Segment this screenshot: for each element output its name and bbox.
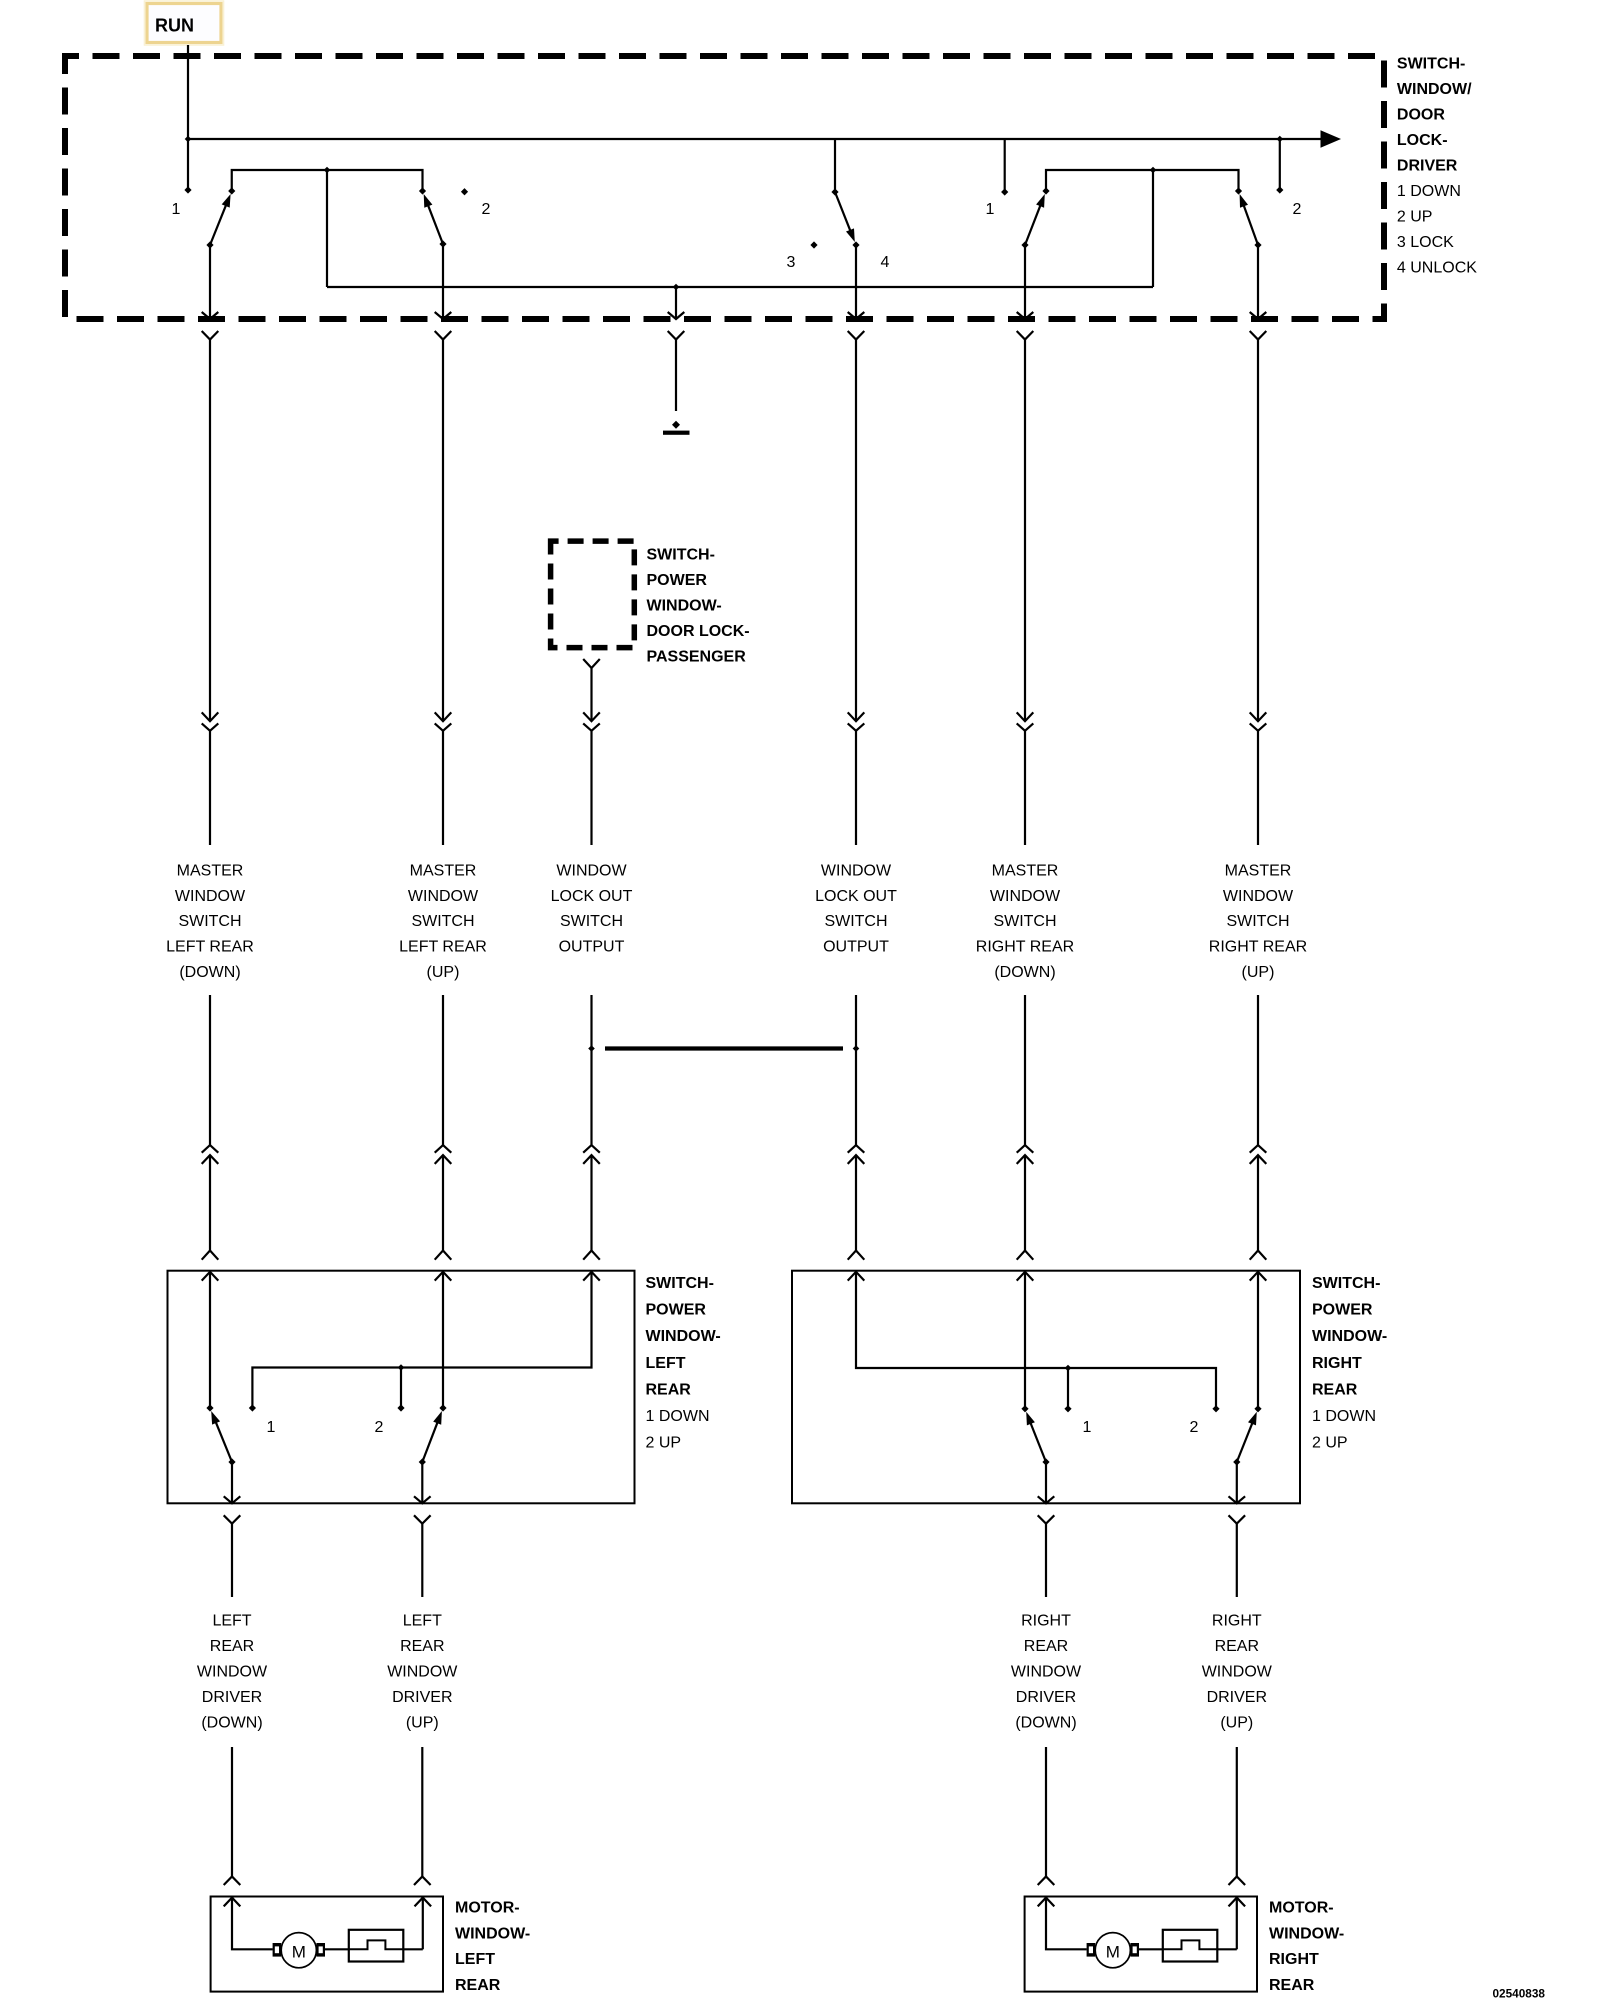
svg-text:2: 2 [1293, 201, 1302, 218]
svg-text:REAR: REAR [646, 1381, 692, 1398]
svg-text:(DOWN): (DOWN) [179, 964, 240, 981]
svg-text:REAR: REAR [1312, 1381, 1358, 1398]
svg-text:WINDOW: WINDOW [1223, 888, 1294, 905]
pin entry arrow motor LEFT REAR down lead [224, 1898, 241, 1907]
switch arm S6 left box down (arrow up) [211, 1411, 235, 1466]
connector socket below block (master right rear down) [1017, 331, 1034, 340]
contact pivot lock switch [831, 188, 838, 195]
svg-text:MASTER: MASTER [1225, 862, 1292, 879]
svg-text:WINDOW-: WINDOW- [647, 598, 722, 615]
svg-text:2 UP: 2 UP [1397, 209, 1433, 226]
svg-text:RIGHT: RIGHT [1212, 1613, 1262, 1630]
wire right pin1 feed from main bus [1004, 139, 1006, 192]
svg-text:DRIVER: DRIVER [1207, 1689, 1267, 1706]
svg-text:WINDOW: WINDOW [387, 1664, 458, 1681]
svg-text:(UP): (UP) [406, 1715, 439, 1732]
wire left box lockout tap drop [400, 1368, 402, 1409]
pin entry arrow motor RIGHT REAR down lead [1038, 1898, 1055, 1907]
motor M1 RIGHT REAR terminal right [1130, 1943, 1139, 1957]
svg-text:SWITCH-: SWITCH- [1312, 1275, 1380, 1292]
node pin 1 right box (DOWN) [1064, 1405, 1091, 1436]
junction main bus / pin2 branch right [1277, 136, 1284, 143]
svg-text:(UP): (UP) [1220, 1715, 1253, 1732]
node pin 1 left box (DOWN) [249, 1404, 276, 1436]
connector socket below block (master left rear up) [435, 331, 452, 340]
svg-text:1 DOWN: 1 DOWN [646, 1408, 710, 1425]
switch arm S5 right-rear-up (arrow up) [1240, 194, 1262, 249]
ground bar G300 [663, 431, 690, 435]
svg-text:POWER: POWER [646, 1302, 707, 1319]
connector socket below passenger switch box [583, 659, 600, 668]
svg-text:LEFT: LEFT [212, 1613, 251, 1630]
wire left box down-feed [209, 1272, 211, 1408]
svg-text:(DOWN): (DOWN) [994, 964, 1055, 981]
wire upper run (master left rear up) [435, 340, 452, 846]
svg-text:DOOR: DOOR [1397, 107, 1445, 124]
svg-text:DRIVER: DRIVER [1397, 158, 1458, 175]
component box SWITCH-POWER WINDOW-RIGHT REAR [792, 1271, 1300, 1504]
motor M1 LEFT REAR terminal right [316, 1943, 325, 1957]
wire bracket joining left switch pivots [232, 170, 423, 191]
svg-text:4: 4 [881, 254, 890, 271]
wire upper run (window lock out right) [848, 340, 865, 846]
svg-text:MASTER: MASTER [410, 862, 477, 879]
net label MASTER WINDOW SWITCH LEFT REAR (DOWN) [166, 862, 254, 981]
svg-text:RIGHT REAR: RIGHT REAR [976, 939, 1074, 956]
wire upper run (master right rear down) [1017, 340, 1034, 846]
node pin 3 LOCK contact (open) [787, 241, 818, 271]
wire driver lead (left rear window down) [224, 1515, 241, 1597]
svg-text:1 DOWN: 1 DOWN [1312, 1408, 1376, 1425]
svg-text:WINDOW-: WINDOW- [1269, 1925, 1344, 1942]
wire window lock out output (right) to block edge [848, 245, 865, 319]
svg-text:SWITCH: SWITCH [993, 913, 1056, 930]
svg-text:WINDOW/: WINDOW/ [1397, 81, 1472, 98]
switch arm S3 lock/unlock (arrow down to pin 4) [835, 192, 855, 242]
svg-text:1: 1 [1083, 1419, 1092, 1436]
label SWITCH-POWER WINDOW-LEFT REAR 1 DOWN 2 UP [646, 1275, 721, 1452]
pin entry arrow left box x=443 [435, 1272, 452, 1281]
svg-text:RIGHT: RIGHT [1269, 1951, 1319, 1968]
node pin 1 left (DOWN contact) with dot [172, 186, 192, 218]
svg-text:(UP): (UP) [427, 964, 460, 981]
svg-text:DRIVER: DRIVER [1016, 1689, 1076, 1706]
svg-text:WINDOW-: WINDOW- [455, 1925, 530, 1942]
wire right box up-feed [1257, 1272, 1259, 1409]
contact pivot right switch arm 1 [1042, 187, 1049, 194]
junction left box lockout tap [398, 1364, 405, 1371]
contact pivot left switch arm 2 [419, 187, 426, 194]
node pin 2 left box (UP) [375, 1404, 405, 1436]
net label MASTER WINDOW SWITCH RIGHT REAR (DOWN) [976, 862, 1074, 981]
svg-text:RIGHT REAR: RIGHT REAR [1209, 939, 1307, 956]
svg-text:SWITCH-: SWITCH- [646, 1275, 714, 1292]
wire bracket tap down to cross bus [326, 170, 328, 287]
svg-text:WINDOW-: WINDOW- [1312, 1328, 1387, 1345]
net label WINDOW LOCK OUT SWITCH OUTPUT [815, 862, 897, 955]
svg-text:REAR: REAR [1215, 1638, 1259, 1655]
wire motor lead (right rear window up) [1229, 1747, 1246, 1885]
connector socket below block (ground lead) [668, 331, 685, 340]
svg-text:REAR: REAR [210, 1638, 254, 1655]
svg-text:DRIVER: DRIVER [202, 1689, 262, 1706]
wire lower run (master left rear down) [202, 995, 219, 1260]
svg-text:2: 2 [1190, 1419, 1199, 1436]
power node RUN (ignition feed) [145, 1, 224, 45]
svg-text:2 UP: 2 UP [646, 1435, 682, 1452]
junction bracket tap right [1150, 167, 1157, 174]
svg-text:WINDOW: WINDOW [408, 888, 479, 905]
component box MOTOR-WINDOW-LEFT REAR [211, 1897, 443, 1992]
svg-text:POWER: POWER [647, 572, 708, 589]
svg-text:LEFT REAR: LEFT REAR [399, 939, 487, 956]
svg-text:RIGHT: RIGHT [1312, 1355, 1362, 1372]
svg-text:M: M [1106, 1942, 1120, 1961]
label SWITCH-WINDOW/DOOR LOCK-DRIVER with pins 1 DOWN 2 UP 3 LOCK 4 UNLOCK [1397, 56, 1477, 277]
svg-text:WINDOW: WINDOW [556, 862, 627, 879]
wire lock out splice bus between columns [605, 1046, 843, 1050]
wire motor RIGHT REAR down lead [1046, 1898, 1087, 1950]
switch arm S1 left-rear-down (arrow up) [206, 194, 230, 249]
pin entry arrow right box x=1258 [1250, 1272, 1267, 1281]
pin entry arrow left box x=591.5 [583, 1272, 600, 1281]
wire master right rear up output to block edge [1250, 245, 1267, 319]
pin entry arrow right box x=1025 [1017, 1272, 1034, 1281]
switch arm S8 right box down (arrow up) [1026, 1412, 1049, 1466]
wire right box output down [1038, 1462, 1055, 1503]
connector socket below block (master left rear down) [202, 331, 219, 340]
component box SWITCH-POWER WINDOW-LEFT REAR [168, 1271, 635, 1504]
contact pivot left switch arm 1 [228, 187, 235, 194]
svg-text:SWITCH: SWITCH [824, 913, 887, 930]
wire bracket joining right switch pivots [1046, 170, 1239, 191]
motor M1 RIGHT REAR body [1095, 1933, 1130, 1968]
svg-text:DRIVER: DRIVER [392, 1689, 452, 1706]
svg-text:SWITCH: SWITCH [178, 913, 241, 930]
svg-text:POWER: POWER [1312, 1302, 1373, 1319]
wire right box lockout tap drop [1067, 1368, 1069, 1409]
net label LEFT REAR WINDOW DRIVER (UP) [387, 1613, 458, 1732]
junction lock out splice left [588, 1045, 595, 1052]
net label MASTER WINDOW SWITCH RIGHT REAR (UP) [1209, 862, 1307, 981]
wire lower run (master left rear up) [435, 995, 452, 1260]
switch arm S2 left-rear-up (arrow up) [424, 194, 447, 248]
svg-text:3: 3 [787, 254, 796, 271]
svg-text:02540838: 02540838 [1493, 1987, 1546, 2000]
component box MOTOR-WINDOW-RIGHT REAR [1025, 1897, 1257, 1992]
svg-text:4 UNLOCK: 4 UNLOCK [1397, 260, 1477, 277]
svg-text:MASTER: MASTER [992, 862, 1059, 879]
switch arm S4 right-rear-down (arrow up) [1021, 194, 1044, 249]
wire window lock out left upper run [583, 668, 600, 845]
pin entry arrow motor RIGHT REAR up lead [1229, 1898, 1246, 1907]
svg-text:(DOWN): (DOWN) [1015, 1715, 1076, 1732]
svg-text:REAR: REAR [1269, 1977, 1315, 1994]
node pin 2 right box (UP) [1190, 1405, 1220, 1436]
wire right box lockout feed bend [856, 1272, 1216, 1409]
switch arm S9 right box up (arrow up) [1233, 1412, 1257, 1466]
circuit breaker CB1 LEFT REAR [349, 1930, 404, 1962]
net label RIGHT REAR WINDOW DRIVER (DOWN) [1011, 1613, 1082, 1732]
wire driver lead (right rear window down) [1038, 1515, 1055, 1597]
svg-text:SWITCH: SWITCH [1226, 913, 1289, 930]
svg-text:(DOWN): (DOWN) [201, 1715, 262, 1732]
node pin 2 right (UP contact) [1276, 139, 1301, 218]
wire motor lead (right rear window down) [1038, 1747, 1055, 1885]
svg-text:LEFT: LEFT [455, 1951, 495, 1968]
svg-text:OUTPUT: OUTPUT [823, 939, 889, 956]
svg-text:WINDOW: WINDOW [1202, 1664, 1273, 1681]
wire right box output up [1229, 1462, 1246, 1503]
svg-text:LEFT: LEFT [646, 1355, 686, 1372]
contact pivot left box arm 2 [439, 1404, 446, 1411]
wire master left rear up output to block edge [435, 244, 452, 319]
label MOTOR-WINDOW-LEFT REAR [455, 1900, 530, 1994]
pin entry arrow right box x=856 [848, 1272, 865, 1281]
svg-text:WINDOW: WINDOW [990, 888, 1061, 905]
svg-text:SWITCH-: SWITCH- [647, 547, 715, 564]
wire driver lead (right rear window up) [1229, 1515, 1246, 1597]
junction lock out splice right [853, 1045, 860, 1052]
svg-text:1: 1 [986, 201, 995, 218]
net label RIGHT REAR WINDOW DRIVER (UP) [1202, 1613, 1273, 1732]
switch arm S7 left box up (arrow up) [419, 1411, 442, 1466]
svg-text:LOCK OUT: LOCK OUT [551, 888, 633, 905]
junction bracket tap left [324, 167, 331, 174]
svg-text:MASTER: MASTER [177, 862, 244, 879]
connector socket below block (master right rear up) [1250, 331, 1267, 340]
wire right box down-feed [1024, 1272, 1026, 1409]
label SWITCH-POWER WINDOW-DOOR LOCK-PASSENGER [647, 547, 750, 666]
wire left box up-feed [442, 1272, 444, 1408]
splice ground dot [672, 421, 680, 429]
junction right box lockout tap [1065, 1365, 1072, 1372]
wire lock switch feed from main bus [834, 139, 836, 192]
wire left box output up [414, 1462, 431, 1503]
junction RUN feed / main bus [185, 136, 192, 143]
svg-text:PASSENGER: PASSENGER [647, 649, 747, 666]
wire master right rear down output to block edge [1017, 245, 1034, 319]
svg-text:REAR: REAR [455, 1977, 501, 1994]
svg-text:MOTOR-: MOTOR- [455, 1900, 520, 1917]
svg-text:SWITCH: SWITCH [560, 913, 623, 930]
svg-text:2 UP: 2 UP [1312, 1435, 1348, 1452]
net label LEFT REAR WINDOW DRIVER (DOWN) [197, 1613, 268, 1732]
wire motor RIGHT REAR to circuit breaker [1139, 1948, 1163, 1950]
svg-text:REAR: REAR [1024, 1638, 1068, 1655]
contact pivot right switch arm 2 [1235, 187, 1242, 194]
svg-text:WINDOW-: WINDOW- [646, 1328, 721, 1345]
junction cross bus / ground tap [673, 284, 680, 291]
connector block SWITCH-WINDOW/DOOR LOCK-DRIVER (dashed outline) [65, 56, 1384, 319]
svg-text:3 LOCK: 3 LOCK [1397, 234, 1454, 251]
wire upper run (master left rear down) [202, 340, 219, 846]
svg-text:1 DOWN: 1 DOWN [1397, 183, 1461, 200]
wire bracket tap down to cross bus right [1152, 170, 1154, 287]
wire motor RIGHT REAR up lead [1236, 1898, 1238, 1950]
svg-text:(UP): (UP) [1242, 964, 1275, 981]
svg-text:DOOR LOCK-: DOOR LOCK- [647, 623, 750, 640]
wire lower run (master right rear down) [1017, 995, 1034, 1260]
wire driver lead (left rear window up) [414, 1515, 431, 1597]
wire left box output down [224, 1462, 241, 1503]
circuit breaker CB1 RIGHT REAR [1163, 1930, 1218, 1962]
label SWITCH-POWER WINDOW-RIGHT REAR 1 DOWN 2 UP [1312, 1275, 1387, 1452]
svg-text:LEFT: LEFT [403, 1613, 442, 1630]
wire motor LEFT REAR to circuit breaker [325, 1948, 349, 1950]
connector block SWITCH-POWER WINDOW-DOOR LOCK-PASSENGER (dashed outline) [551, 541, 635, 648]
svg-text:1: 1 [267, 1419, 276, 1436]
arrow main bus output to door-lock circuit [1321, 130, 1342, 147]
label MOTOR-WINDOW-RIGHT REAR [1269, 1900, 1344, 1994]
svg-text:REAR: REAR [400, 1638, 444, 1655]
wire circuit breaker RIGHT REAR to up lead [1217, 1948, 1237, 1950]
net label MASTER WINDOW SWITCH LEFT REAR (UP) [399, 862, 487, 981]
wire lower run (window lock out left) [583, 995, 600, 1260]
svg-text:SWITCH-: SWITCH- [1397, 56, 1465, 73]
motor M1 LEFT REAR terminal left [273, 1943, 282, 1957]
wire master left rear down output to block edge [202, 245, 219, 319]
wire ground tap output to block edge [668, 287, 685, 319]
svg-text:RIGHT: RIGHT [1021, 1613, 1071, 1630]
svg-text:WINDOW: WINDOW [821, 862, 892, 879]
svg-text:2: 2 [482, 201, 491, 218]
wire motor lead (left rear window up) [414, 1747, 431, 1885]
svg-text:MOTOR-: MOTOR- [1269, 1900, 1334, 1917]
svg-text:LEFT REAR: LEFT REAR [166, 939, 254, 956]
svg-text:WINDOW: WINDOW [175, 888, 246, 905]
svg-text:WINDOW: WINDOW [1011, 1664, 1082, 1681]
net label WINDOW LOCK OUT SWITCH OUTPUT [551, 862, 633, 955]
wire motor lead (left rear window down) [224, 1747, 241, 1885]
wire motor LEFT REAR down lead [232, 1898, 273, 1950]
svg-text:SWITCH: SWITCH [411, 913, 474, 930]
contact pivot right box arm 1 [1021, 1405, 1028, 1412]
wire upper run (master right rear up) [1250, 340, 1267, 846]
contact pivot right box arm 2 [1254, 1405, 1261, 1412]
svg-text:OUTPUT: OUTPUT [559, 939, 625, 956]
wire left box lockout feed bend [252, 1272, 591, 1408]
wire circuit breaker LEFT REAR to up lead [403, 1948, 423, 1950]
pin entry arrow left box x=210 [202, 1272, 219, 1281]
connector socket below block (window lock out right) [848, 331, 865, 340]
document number 02540838 [1493, 1987, 1546, 2000]
svg-text:2: 2 [375, 1419, 384, 1436]
wire ground lead [675, 340, 677, 412]
node pin 4 UNLOCK contact [852, 241, 889, 271]
motor M1 LEFT REAR body [281, 1933, 316, 1968]
wire RUN feed down into driver switch block [187, 45, 189, 190]
node pin 1 right (DOWN contact) [986, 188, 1009, 218]
svg-text:LOCK OUT: LOCK OUT [815, 888, 897, 905]
svg-text:RUN: RUN [155, 16, 194, 36]
wire cross bus linking both window switch brackets [327, 286, 1153, 288]
svg-text:LOCK-: LOCK- [1397, 132, 1448, 149]
contact pivot left box arm 1 [206, 1404, 213, 1411]
wire motor LEFT REAR up lead [422, 1898, 424, 1950]
wire main bus inside driver switch block [188, 138, 1321, 140]
wire lower run (window lock out right) [848, 995, 865, 1260]
svg-text:WINDOW: WINDOW [197, 1664, 268, 1681]
pin entry arrow motor LEFT REAR up lead [415, 1898, 432, 1907]
svg-text:1: 1 [172, 201, 181, 218]
wire lower run (master right rear up) [1250, 995, 1267, 1260]
node pin 2 left (UP contact, open) [461, 188, 491, 218]
motor M1 RIGHT REAR terminal left [1087, 1943, 1096, 1957]
svg-text:M: M [292, 1942, 306, 1961]
